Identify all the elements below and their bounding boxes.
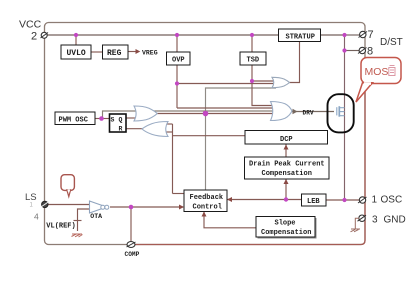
wire OR4 output to gate [292, 111, 334, 113]
svg-text:Control: Control [193, 203, 222, 211]
junction dot OVP branch [175, 81, 179, 85]
svg-text:DCP: DCP [280, 136, 293, 144]
wire TSD down [251, 65, 253, 81]
svg-text:D/ST: D/ST [380, 37, 403, 48]
junction dot node comparator [203, 111, 209, 117]
junction dot pin8 [342, 48, 346, 52]
svg-text:OVP: OVP [172, 57, 185, 65]
svg-text:8: 8 [367, 46, 373, 58]
wire OR1 output to OR4 input 3 [156, 113, 278, 115]
pin 2 VCC [19, 19, 48, 43]
svg-text:UVLO: UVLO [67, 49, 86, 58]
or-gate OR2 (points left) [142, 122, 168, 137]
reference source bar [74, 220, 82, 222]
svg-text:TSD: TSD [247, 57, 260, 65]
arrowheads [136, 49, 298, 217]
wire TSD to OR3 [252, 80, 276, 82]
wire stub to OVP [176, 35, 178, 52]
junction dot TSD bus [250, 33, 254, 37]
block DCP [245, 131, 328, 145]
junction dot pin7 [342, 33, 346, 37]
svg-text:COMP: COMP [125, 251, 140, 258]
or-gate OR3 [272, 77, 290, 87]
svg-text:REG: REG [107, 49, 122, 58]
arrowhead into DCP [284, 145, 289, 150]
wire latch Q to OR1 [126, 117, 138, 119]
op-amp OTA [90, 201, 109, 220]
svg-text:Compensation: Compensation [262, 170, 312, 178]
wire FC bottom to slope comp [204, 212, 256, 228]
wire stub to UVLO [75, 35, 77, 45]
block UVLO [61, 45, 91, 59]
block TSD [240, 52, 266, 65]
svg-text:Q: Q [119, 117, 123, 124]
wire OR3 output to STARTUP [290, 42, 300, 83]
block Drain Peak Current Compensation [245, 157, 330, 179]
pin 7 [359, 29, 374, 41]
junction dot OVP bus [175, 33, 179, 37]
svg-text:3GND: 3GND [372, 214, 406, 225]
latch SR [110, 114, 127, 133]
svg-text:Slope: Slope [275, 220, 296, 228]
svg-text:LEB: LEB [307, 198, 320, 206]
junction dot UVLO bus [74, 33, 78, 37]
arrowhead DRV [293, 109, 298, 114]
wire DPCC to DCP [285, 145, 287, 158]
arrowhead into FC left [179, 205, 184, 210]
ground symbol GND pin [351, 218, 361, 232]
wire pin7 link [345, 34, 361, 36]
wire junction to DPCC [285, 179, 287, 200]
wire OVP to OR3 [177, 83, 276, 85]
wire over-route to OR1 [103, 111, 279, 119]
junction dot PWM OSC [99, 116, 104, 121]
svg-text:VCC: VCC [19, 19, 42, 31]
wire OR2 vertical [172, 124, 174, 194]
block LEB [302, 194, 327, 206]
junction dot COMP node [129, 205, 134, 210]
wire COMP riser [130, 207, 132, 242]
wire REG to VREG arrow [128, 51, 136, 53]
IC outline red segment right [131, 57, 365, 245]
block Slope Compensation [256, 217, 315, 238]
wire branch to OR4 input 1 [252, 81, 278, 106]
mosfet highlight ring [328, 94, 354, 132]
wire OTA inverting input [78, 209, 90, 221]
wire UVLO to REG [91, 51, 103, 53]
junction dot DPCC node [284, 197, 288, 201]
arrowhead into FC right [227, 197, 232, 202]
svg-text:VREG: VREG [142, 50, 158, 57]
svg-text:7: 7 [368, 29, 374, 41]
block REG [103, 45, 129, 59]
block Feedback Control [184, 190, 227, 212]
wire stub to TSD [251, 35, 253, 52]
svg-text:Drain Peak Current: Drain Peak Current [249, 160, 325, 168]
transistor MOSFET Q1 [337, 106, 345, 117]
or-gate OR4 driver [271, 102, 293, 121]
svg-text:Compensation: Compensation [261, 229, 311, 237]
wire DCP feed [173, 135, 246, 137]
wire OR2 upper input [161, 123, 173, 125]
wire LEB to OSC pin [326, 199, 359, 201]
pin 3 GND [358, 214, 406, 225]
junction dot TSD branch [250, 79, 254, 83]
wire OR2 lower input [161, 131, 173, 133]
junction dot OSC node [342, 198, 346, 202]
block STARTUP [279, 29, 321, 42]
arrowhead into FC bottom [202, 212, 207, 217]
arrowhead VREG [136, 49, 141, 54]
wire OVP down [176, 65, 178, 108]
svg-text:R: R [119, 126, 123, 133]
block OVP [167, 52, 191, 65]
svg-text:1OSC: 1OSC [372, 195, 403, 206]
svg-text:OTA: OTA [90, 213, 102, 220]
pin COMP [125, 242, 140, 258]
svg-text:Feedback: Feedback [190, 194, 224, 202]
svg-text:VL(REF): VL(REF) [46, 222, 75, 230]
wire reference to ground [77, 221, 79, 232]
or-gate OR1 [134, 106, 157, 121]
wire pin8 link [345, 50, 360, 52]
pin 4 LS [25, 192, 49, 222]
wire into FC left upper [173, 193, 185, 195]
wire drain-source vertical [344, 35, 346, 200]
IC outline box [45, 23, 366, 245]
svg-text:PWM OSC: PWM OSC [59, 116, 88, 124]
svg-text:4: 4 [34, 212, 39, 222]
wire OR2 output to latch R [126, 128, 143, 130]
svg-text:S: S [111, 117, 115, 124]
wire PWM OSC to latch S [95, 118, 110, 120]
wire LS to OTA [48, 204, 89, 206]
svg-text:DRV: DRV [303, 109, 314, 116]
wire FC to LEB [227, 199, 302, 201]
wire OVP long to OR4 input 2 [177, 107, 278, 109]
pin 1 OSC [358, 195, 402, 206]
pin 8 [358, 46, 373, 58]
callout LS bubble [61, 175, 74, 197]
wire VCC bus [47, 34, 345, 36]
block labels [59, 33, 325, 237]
blocks [55, 29, 329, 239]
svg-text:STRATUP: STRATUP [286, 33, 315, 41]
callout MOS bubble [356, 58, 401, 103]
wire comparator to OR3 [206, 88, 277, 190]
arrowhead into DPCC [284, 179, 289, 184]
block Slope Compensation shadow [258, 218, 317, 239]
block PWM OSC [55, 112, 95, 125]
ground symbol VL reference [72, 234, 83, 237]
svg-text:2: 2 [31, 31, 37, 43]
svg-text:LS: LS [25, 192, 37, 203]
wire OTA output to FC [110, 206, 183, 208]
svg-text:MOS: MOS [365, 66, 389, 78]
